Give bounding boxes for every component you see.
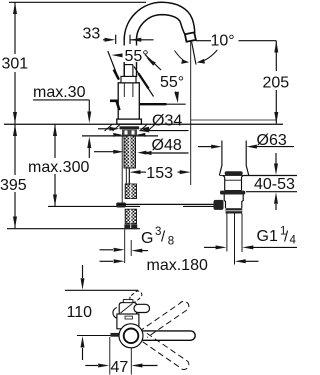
svg-text:Ø48: Ø48 xyxy=(152,137,182,154)
o-ring seal xyxy=(220,191,245,195)
top view: cap diagonal detail xyxy=(121,304,133,314)
pivot rod clamp xyxy=(214,200,224,210)
dimension 33 xyxy=(103,35,154,44)
counter bottom line xyxy=(82,135,158,137)
G1 1/4 dimension arrows xyxy=(204,245,297,249)
lever tilt line B (right, steep) xyxy=(134,67,154,97)
max.30 leader+arrows xyxy=(87,100,91,158)
counter hatching right xyxy=(140,125,156,132)
cartridge lines inside body xyxy=(124,83,133,97)
faucet body xyxy=(118,83,139,119)
svg-text:395: 395 xyxy=(0,177,27,194)
washer bar under counter xyxy=(120,126,140,129)
thin reference line nozzle-205 xyxy=(191,119,277,121)
top extension line xyxy=(9,1,146,3)
svg-text:110: 110 xyxy=(67,304,93,321)
dimension 301 xyxy=(13,2,17,123)
dia63 arrows xyxy=(198,145,294,149)
10deg angle arc left branch xyxy=(175,51,186,62)
dimension 40-53 arrows xyxy=(274,153,278,210)
top view: left bulge xyxy=(113,308,117,319)
svg-text:10°: 10° xyxy=(211,33,235,50)
svg-text:301: 301 xyxy=(2,56,29,73)
svg-text:Ø34: Ø34 xyxy=(152,113,182,130)
top view: lever knob solid xyxy=(134,304,150,312)
supply hose hatch lower xyxy=(125,209,136,224)
extension line at 395 bottom xyxy=(7,228,140,230)
threaded shank hatch xyxy=(124,136,136,168)
55deg dim slant line with arrowhead xyxy=(145,55,161,70)
svg-text:55°: 55° xyxy=(125,48,149,65)
G3/8 extension ticks xyxy=(125,230,132,264)
pop-up pull rod xyxy=(122,136,126,204)
svg-text:205: 205 xyxy=(263,75,290,92)
svg-text:Ø63: Ø63 xyxy=(257,132,287,149)
top view: dashed capsule upper xyxy=(139,301,189,338)
top view: ring outer xyxy=(119,324,143,348)
dimension 47 xyxy=(85,337,157,375)
pop-up knob stub on body left xyxy=(110,101,119,111)
horizontal linkage rod xyxy=(118,203,214,205)
drain upper body xyxy=(223,175,244,190)
top view: body cap xyxy=(119,303,136,315)
svg-text:/: / xyxy=(284,229,289,246)
counter top line xyxy=(4,123,283,125)
svg-text:max.300: max.300 xyxy=(28,159,89,176)
svg-text:/: / xyxy=(161,229,166,246)
G3/8 dimension arrows xyxy=(100,248,149,253)
dimension 153 xyxy=(129,167,190,185)
55deg #2 bottom arrow xyxy=(174,92,179,104)
hose end caps xyxy=(124,224,130,229)
dimension 395 xyxy=(13,124,17,228)
dia48 arrows at washer xyxy=(98,127,149,131)
base flare xyxy=(117,119,142,124)
cartridge collar xyxy=(121,76,136,82)
svg-text:153: 153 xyxy=(146,165,173,182)
top view: rod block left of ring xyxy=(111,333,120,337)
dia34 arrows at shank xyxy=(113,133,145,137)
top view: spout capsule solid xyxy=(140,331,195,340)
extension line at max.300 bottom xyxy=(48,205,140,207)
lever horizontal position line xyxy=(140,103,186,105)
drain sleeve (basin flange) xyxy=(219,141,248,176)
aerator nozzle xyxy=(185,32,196,41)
lever tilt line A (left) xyxy=(108,51,119,80)
pop-up plug cap xyxy=(225,171,243,175)
top view: logo plate xyxy=(125,316,132,319)
top view: body square xyxy=(117,314,139,329)
max.180 dimension xyxy=(100,259,259,263)
10deg angle arc right branch xyxy=(199,50,218,62)
tailpiece xyxy=(226,201,242,208)
svg-text:40-53: 40-53 xyxy=(254,176,295,193)
dimension 205 xyxy=(274,41,278,124)
lever stem xyxy=(124,65,133,77)
spout outer arc xyxy=(124,2,195,40)
water stream vertical extension line xyxy=(190,42,192,186)
svg-text:max.30: max.30 xyxy=(33,84,86,101)
top view: dashed lever knob xyxy=(128,289,143,303)
svg-text:G: G xyxy=(141,230,153,247)
top view: dashed capsule lower xyxy=(139,333,189,370)
thread band G1 1/4 xyxy=(226,208,243,213)
counter hatching left xyxy=(105,125,121,132)
svg-text:33: 33 xyxy=(83,26,101,43)
svg-text:8: 8 xyxy=(168,236,174,248)
spout inner arc xyxy=(137,15,185,40)
55deg #1 left arrow xyxy=(112,53,123,57)
10deg leader line xyxy=(196,40,211,42)
svg-text:55°: 55° xyxy=(160,74,184,91)
drain lower body xyxy=(224,195,243,202)
svg-text:G1: G1 xyxy=(257,228,278,245)
10deg slant line xyxy=(192,42,196,65)
top view: ring inner xyxy=(124,329,139,344)
spout tube verticals xyxy=(123,40,125,77)
arrows row y152 xyxy=(94,150,147,155)
dimension 110 xyxy=(77,265,111,360)
label 55deg #1 xyxy=(123,46,156,63)
svg-text:4: 4 xyxy=(290,235,297,247)
svg-text:max.180: max.180 xyxy=(147,257,208,274)
pop-up rod T knob xyxy=(116,203,126,208)
top view: back reference line xyxy=(65,289,138,291)
dimension max.300 xyxy=(53,124,57,206)
40-53 extension lines xyxy=(244,175,297,177)
svg-text:47: 47 xyxy=(111,359,129,375)
drain pipe xyxy=(227,214,242,265)
supply hose hatch upper xyxy=(125,184,136,199)
mounting nut xyxy=(122,130,137,136)
